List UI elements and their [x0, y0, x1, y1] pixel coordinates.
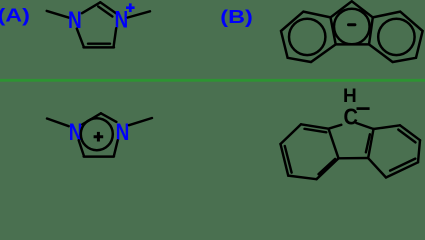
right benzo: C8a-C8: [374, 125, 401, 129]
central minus charge: [347, 23, 356, 26]
bond C9a-C4a (5-ring left): [329, 129, 339, 159]
left benzo: C4=C4a inner: [319, 159, 336, 174]
right benzo: C8=C7 inner: [398, 130, 415, 143]
minus charge bar: [357, 107, 370, 110]
bond N1'-C5': [79, 140, 84, 156]
left benzo: C2=C3 outer: [281, 144, 289, 176]
left benzo: C1-C2: [281, 124, 302, 144]
svg-text:(B): (B): [220, 6, 252, 27]
left benzo: C4=C4a outer: [317, 158, 339, 179]
bond C9-C9a: [329, 125, 342, 129]
right benzo: C6=C5 outer: [386, 162, 418, 177]
left benzo: C9a=C1 inner: [305, 129, 327, 133]
bond N3'-C4': [114, 140, 118, 156]
bond C4=C5 outer: [84, 46, 115, 48]
right aromatic circle: [378, 19, 414, 55]
bond N3-C4: [114, 28, 117, 46]
left benzo ring: [281, 12, 336, 62]
svg-text:(A): (A): [0, 5, 30, 26]
central aromatic circle: [334, 9, 370, 45]
right benzo: C8=C7 outer: [400, 125, 420, 140]
left benzo: C3-C4: [288, 176, 316, 180]
bond N3-methyl: [128, 11, 150, 17]
bond N1-C2: [82, 2, 100, 13]
bond N1-C5: [77, 29, 84, 47]
bond C2=N3 inner: [98, 7, 112, 17]
bond C4=C5 inner: [88, 42, 110, 44]
aromatic circle: [81, 118, 113, 150]
right benzo: C6=C5 inner: [390, 159, 415, 171]
left aromatic circle: [289, 19, 325, 55]
bond C8a=C4b outer (5-ring right): [368, 129, 373, 158]
left benzo: C9a=C1 outer: [301, 124, 329, 128]
cyclopentadienyl pentagon: [331, 1, 373, 44]
bond C2'-N3': [101, 113, 117, 122]
bond N3'-methyl: [129, 118, 152, 125]
left benzo: C2=C3 inner: [285, 146, 292, 173]
svg-text:C: C: [344, 103, 358, 130]
charge + on N3: [126, 3, 135, 12]
bond methyl-N1: [47, 11, 69, 18]
bond C9-C8a: [356, 123, 373, 129]
bond C4'-C5': [84, 155, 114, 157]
bond C8a=C4b inner: [366, 134, 370, 152]
bond methyl-N1': [47, 119, 69, 127]
right benzo: C5-C4b: [368, 158, 386, 178]
charge + center: [94, 132, 104, 142]
bond C4a-C4b (5-ring bottom): [339, 157, 369, 160]
right benzo: C7-C6: [418, 140, 420, 162]
green divider line: [0, 79, 425, 82]
bond N1'-C2': [82, 113, 101, 124]
bond C2=N3 outer: [100, 2, 116, 13]
right benzo ring: [369, 12, 423, 62]
svg-text:N: N: [68, 7, 82, 34]
